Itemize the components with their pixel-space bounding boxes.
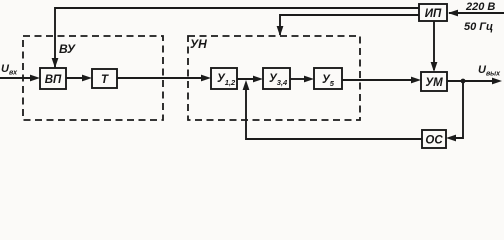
arrowhead into УМ — [411, 77, 421, 84]
wire: У3,4 to У5 — [290, 78, 306, 80]
block У1,2 — [211, 68, 237, 89]
svg-text:Т: Т — [101, 74, 109, 86]
svg-text:УМ: УМ — [425, 77, 443, 89]
arrowhead output Uвых — [492, 78, 502, 85]
svg-text:ИП: ИП — [425, 8, 442, 20]
wire: output node down and into ОС — [454, 81, 463, 138]
svg-text:ВП: ВП — [45, 74, 62, 86]
wire: mains 220V input into ИП — [449, 12, 504, 14]
svg-text:220 В: 220 В — [465, 1, 495, 13]
arrowhead down onto УН box — [277, 26, 284, 36]
arrowhead into У1,2 — [201, 75, 211, 82]
block У3,4 — [263, 68, 290, 89]
arrowhead mains into ИП — [448, 10, 458, 17]
wire: input Uвх into ВП — [0, 77, 32, 79]
paper background — [0, 0, 504, 152]
svg-text:50 Гц: 50 Гц — [464, 21, 493, 33]
dashed box ВУ — [23, 36, 163, 120]
svg-text:УН: УН — [190, 37, 207, 51]
arrowhead down into УМ top — [431, 62, 438, 72]
block ОС — [422, 130, 446, 148]
block УМ — [421, 72, 447, 91]
arrowhead down into ВП top — [52, 58, 59, 68]
wire: У1,2 to У3,4 — [237, 78, 256, 80]
svg-text:ВУ: ВУ — [59, 42, 76, 56]
wire: ИП down to УМ — [433, 21, 435, 70]
junction dot on output line — [461, 79, 466, 84]
arrowhead into У5 — [304, 76, 314, 83]
block Т — [92, 69, 117, 88]
arrowhead into У3,4 — [253, 76, 263, 83]
svg-text:ОС: ОС — [425, 135, 443, 147]
arrowhead into ВП (signal input) — [30, 75, 40, 82]
wire: ВП to Т — [66, 77, 84, 79]
arrowhead into Т — [82, 75, 92, 82]
block У5 — [314, 68, 342, 89]
wire: УМ to output Uвых — [447, 80, 493, 82]
wire: second supply line from ИП to УН box — [280, 15, 419, 35]
arrowhead feedback up into main line — [243, 80, 250, 90]
wire: ОС feedback to node between У1,2 and У3,4 — [246, 88, 422, 139]
dashed box УН — [188, 36, 360, 120]
wire: У5 to УМ — [342, 79, 413, 81]
block ВП — [40, 68, 66, 89]
arrowhead into ОС right side — [446, 135, 456, 142]
wire: Т to У1,2 — [117, 77, 203, 79]
wire: top feedback line from node above ВП to ИП — [55, 8, 419, 68]
block ИП — [419, 4, 447, 21]
